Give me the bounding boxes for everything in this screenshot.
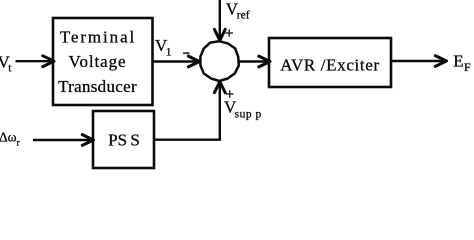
minus sign at V1 input	[183, 52, 190, 54]
svg-text:PS S: PS S	[108, 130, 140, 149]
node label Vt	[0, 53, 12, 75]
wire: PSS output up into summing junction (Vsupp)	[154, 82, 225, 140]
plus sign at Vref input	[226, 29, 234, 36]
svg-text:ref: ref	[237, 9, 250, 21]
node label Vsupp	[224, 98, 262, 121]
svg-text:Terminal: Terminal	[60, 28, 136, 47]
svg-text:Voltage: Voltage	[69, 52, 127, 71]
node label delta-omega-r	[0, 129, 21, 148]
plus sign at Vsupp input	[226, 90, 234, 97]
svg-text:Transducer: Transducer	[58, 77, 137, 96]
wire: Vref input arrow down into summing junction	[214, 0, 225, 41]
svg-text:F: F	[464, 60, 471, 74]
block: Terminal Voltage Transducer	[53, 18, 153, 105]
svg-text:t: t	[8, 62, 12, 74]
block: AVR / Exciter	[269, 38, 391, 87]
svg-text:r: r	[17, 139, 21, 149]
wire: Vt input arrow into transducer	[16, 56, 55, 67]
block: PSS	[93, 111, 154, 168]
node label V1	[155, 36, 172, 58]
svg-text:AVR /Exciter: AVR /Exciter	[280, 55, 380, 74]
wire: transducer output V1 into summing junction	[153, 56, 200, 67]
summing junction	[200, 41, 238, 81]
node label Vref	[226, 0, 250, 21]
svg-text:sup p: sup p	[235, 108, 262, 120]
svg-text:Δω: Δω	[0, 129, 17, 144]
wire: summing junction output into AVR/Exciter	[239, 56, 270, 67]
wire: delta-omega input arrow into PSS	[33, 135, 94, 146]
svg-text:E: E	[453, 52, 463, 71]
wire: AVR/Exciter output arrow to EF	[391, 56, 447, 67]
svg-text:1: 1	[166, 46, 172, 58]
node label EF	[453, 52, 471, 74]
